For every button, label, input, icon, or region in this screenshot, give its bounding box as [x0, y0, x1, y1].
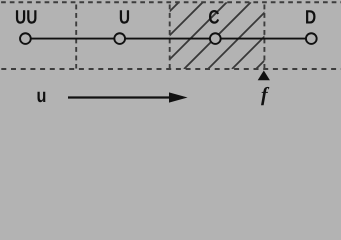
- velocity arrow shaft: [68, 96, 172, 98]
- vertical dashed cell line 2: [169, 5, 171, 69]
- velocity arrow head: [169, 92, 188, 102]
- bottom dashed boundary: [1, 68, 341, 70]
- svg-text:U: U: [119, 6, 130, 28]
- node circle C: [210, 33, 221, 44]
- top dashed boundary: [1, 1, 341, 3]
- node circle D: [306, 33, 317, 44]
- vertical dashed cell line 1: [75, 5, 77, 69]
- interface marker triangle: [258, 71, 270, 81]
- svg-text:C: C: [208, 6, 219, 28]
- hatch cell C: [112, 2, 323, 69]
- node circle U: [114, 33, 125, 44]
- svg-text:D: D: [305, 6, 316, 28]
- svg-text:u: u: [36, 85, 46, 107]
- vertical dashed cell line 3: [263, 5, 265, 69]
- svg-text:UU: UU: [15, 6, 37, 28]
- node circle UU: [20, 33, 31, 44]
- node connecting line: [25, 38, 311, 40]
